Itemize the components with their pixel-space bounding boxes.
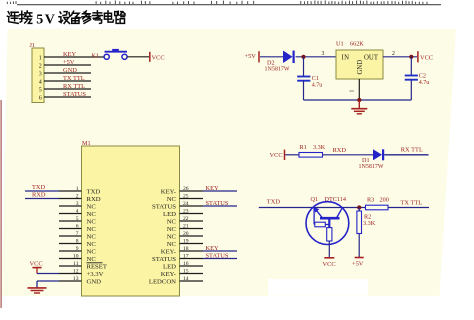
svg-text:2: 2: [392, 51, 395, 57]
svg-text:NC: NC: [87, 248, 97, 255]
svg-text:14: 14: [183, 276, 189, 282]
svg-text:3.3K: 3.3K: [363, 220, 376, 227]
svg-text:1: 1: [350, 90, 356, 93]
svg-text:VCC: VCC: [152, 54, 165, 61]
svg-text:OUT: OUT: [364, 54, 379, 61]
svg-text:25: 25: [183, 194, 189, 200]
svg-text:C1: C1: [312, 75, 319, 82]
svg-text:LED: LED: [163, 211, 176, 218]
svg-text:STATUS: STATUS: [152, 256, 176, 263]
svg-text:NC: NC: [167, 241, 177, 248]
svg-text:TXD: TXD: [32, 184, 46, 191]
svg-text:3: 3: [322, 51, 325, 57]
svg-text:3: 3: [76, 201, 79, 207]
svg-text:5: 5: [76, 216, 79, 222]
svg-text:RXD: RXD: [32, 192, 46, 199]
svg-text:STATUS: STATUS: [152, 203, 176, 210]
svg-text:22: 22: [183, 216, 189, 222]
svg-text:KEY-: KEY-: [161, 188, 176, 195]
svg-text:662K: 662K: [350, 41, 364, 48]
svg-text:+3.3V: +3.3V: [87, 271, 104, 278]
svg-text:23: 23: [183, 209, 189, 215]
svg-text:+5V: +5V: [63, 59, 75, 66]
svg-text:VCC: VCC: [420, 54, 433, 61]
svg-text:RXD: RXD: [87, 196, 101, 203]
svg-text:STATUS: STATUS: [206, 253, 229, 260]
svg-text:K1: K1: [92, 53, 100, 60]
svg-text:STATUS: STATUS: [206, 200, 229, 207]
svg-text:NC: NC: [167, 233, 177, 240]
svg-text:NC: NC: [87, 241, 97, 248]
svg-text:RX TTL: RX TTL: [63, 83, 85, 90]
svg-text:RXD: RXD: [333, 147, 347, 154]
svg-text:24: 24: [183, 201, 189, 207]
svg-text:4.7u: 4.7u: [312, 83, 323, 89]
svg-text:TX TTL: TX TTL: [401, 200, 423, 207]
svg-text:1N5817W: 1N5817W: [359, 164, 384, 170]
svg-text:5V: 5V: [36, 13, 56, 28]
svg-text:9: 9: [76, 246, 79, 252]
svg-text:21: 21: [183, 224, 189, 230]
svg-text:19: 19: [183, 239, 189, 245]
svg-text:4: 4: [39, 79, 42, 85]
svg-text:IN: IN: [342, 54, 350, 61]
svg-text:KEY: KEY: [206, 245, 220, 252]
svg-text:6: 6: [76, 224, 79, 230]
svg-text:VCC: VCC: [30, 261, 43, 268]
svg-text:NC: NC: [87, 226, 97, 233]
svg-text:KEY: KEY: [63, 51, 77, 58]
svg-text:1: 1: [76, 186, 79, 192]
svg-text:2: 2: [39, 63, 42, 69]
svg-text:VCC: VCC: [270, 152, 283, 159]
svg-text:RX TTL: RX TTL: [401, 146, 423, 153]
svg-text:2: 2: [76, 194, 79, 200]
svg-text:16: 16: [183, 261, 189, 267]
svg-text:8: 8: [76, 239, 79, 245]
svg-text:5: 5: [39, 87, 42, 93]
svg-text:LED: LED: [163, 263, 176, 270]
svg-text:4: 4: [76, 209, 79, 215]
svg-text:NC: NC: [87, 218, 97, 225]
svg-text:+5V: +5V: [352, 261, 364, 268]
svg-text:NC: NC: [87, 211, 97, 218]
svg-text:Q1: Q1: [311, 196, 319, 203]
svg-text:6: 6: [39, 95, 42, 101]
svg-text:R1: R1: [300, 144, 307, 151]
svg-text:TXD: TXD: [267, 199, 281, 206]
svg-text:U1: U1: [336, 41, 344, 48]
svg-text:20: 20: [183, 231, 189, 237]
svg-text:LEDCON: LEDCON: [149, 278, 176, 285]
svg-text:NC: NC: [167, 218, 177, 225]
svg-text:KEY-: KEY-: [161, 248, 176, 255]
svg-text:RESET: RESET: [87, 263, 107, 270]
svg-text:GND: GND: [87, 278, 102, 285]
svg-text:NC: NC: [87, 256, 97, 263]
svg-text:D2: D2: [267, 59, 275, 66]
svg-text:11: 11: [73, 261, 79, 267]
svg-text:NC: NC: [167, 226, 177, 233]
svg-text:TX TTL: TX TTL: [63, 75, 85, 82]
svg-text:1N5817W: 1N5817W: [265, 66, 290, 72]
svg-text:10: 10: [73, 254, 79, 260]
svg-text:15: 15: [183, 269, 189, 275]
svg-text:1: 1: [39, 55, 42, 61]
svg-text:12: 12: [73, 269, 79, 275]
svg-text:STATUS: STATUS: [63, 91, 86, 98]
svg-text:7: 7: [76, 231, 79, 237]
svg-text:+5V: +5V: [245, 53, 257, 60]
svg-text:GND: GND: [63, 67, 77, 74]
svg-text:NC: NC: [87, 233, 97, 240]
svg-text:KEY-: KEY-: [161, 271, 176, 278]
svg-text:TXD: TXD: [87, 188, 101, 195]
svg-text:C2: C2: [419, 73, 426, 80]
svg-text:200: 200: [380, 197, 389, 204]
svg-text:NC: NC: [87, 203, 97, 210]
svg-text:4.7u: 4.7u: [419, 80, 430, 86]
svg-text:3.3K: 3.3K: [313, 144, 326, 151]
svg-text:3: 3: [39, 71, 42, 77]
svg-text:26: 26: [183, 186, 189, 192]
svg-text:GND: GND: [357, 60, 364, 75]
svg-text:R3: R3: [367, 197, 374, 204]
svg-text:NC: NC: [167, 196, 177, 203]
svg-text:13: 13: [73, 276, 79, 282]
svg-text:KEY: KEY: [206, 185, 220, 192]
svg-text:18: 18: [183, 246, 189, 252]
svg-text:17: 17: [183, 254, 189, 260]
svg-text:VCC: VCC: [323, 261, 336, 268]
